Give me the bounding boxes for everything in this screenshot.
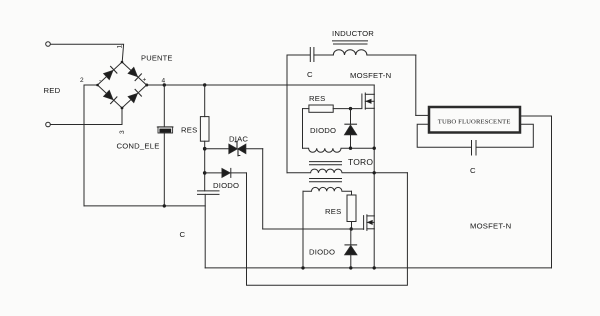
toroid core lines [310, 161, 342, 163]
diode DIODO (cell1) [350, 109, 352, 125]
toroid winding W2 (primary) [287, 169, 407, 173]
bridge diode D-topleft [104, 66, 117, 79]
wire inductor to lamp [415, 55, 417, 115]
node COND_ELE tap [163, 83, 166, 86]
node W2-midpoint [373, 171, 376, 174]
wire lamp pin bottom-left loop to cap [417, 124, 471, 147]
wire DIODO to bottom loop [247, 173, 408, 285]
bridge diode D-bottomright [128, 89, 141, 102]
wire box2 left vertical [302, 191, 304, 268]
wire gate1 rail left [303, 108, 309, 110]
mosfet U1 MOSFET-N [361, 94, 363, 108]
diode DIODO (trigger) [205, 172, 222, 174]
svg-text:COND_ELE: COND_ELE [117, 141, 160, 150]
bridge diode D-topright [128, 67, 141, 80]
svg-text:C: C [470, 166, 476, 175]
node bridge pin3 (bottom vertex) [121, 107, 124, 110]
wire resonant top rail [287, 54, 310, 56]
wire lamp pin top-left [416, 114, 429, 116]
node DIAC tap [203, 147, 207, 151]
svg-text:DIODO: DIODO [213, 181, 239, 190]
svg-text:1: 1 [117, 45, 124, 49]
wire bridge pin3 [121, 108, 123, 125]
capacitor COND_ELE [157, 127, 173, 133]
wire cap to lamp right-bottom [476, 124, 533, 147]
svg-text:-: - [99, 78, 101, 85]
capacitor C resonant [309, 48, 311, 62]
wire C to inductor [314, 54, 333, 56]
node M2source-rail [373, 266, 376, 269]
wire M1 drain [373, 85, 375, 94]
terminal bottom input [46, 122, 51, 127]
capacitor C lamp [471, 141, 473, 156]
wire box1 left vertical [302, 109, 304, 149]
diode DIODO (cell2) [345, 245, 357, 255]
wire M2 source [373, 229, 375, 268]
bridge PUENTE diamond [98, 62, 147, 108]
svg-text:DIAC: DIAC [229, 135, 248, 144]
node diode2-rail [349, 266, 352, 269]
wire DIAC to gate2 rail [262, 149, 264, 229]
inductor INDUCTOR (coil with core bars) [333, 50, 367, 55]
svg-text:+: + [143, 77, 147, 84]
wire right vertical to bottom rail [551, 116, 553, 268]
svg-text:TORO: TORO [348, 157, 373, 167]
svg-text:RES: RES [325, 207, 341, 216]
node RES1 tap [203, 83, 206, 86]
svg-text:2: 2 [80, 77, 84, 84]
node W1-diode1 [349, 147, 352, 150]
svg-text:RED: RED [44, 86, 61, 95]
node box2-rail [301, 266, 304, 269]
svg-text:4: 4 [162, 78, 166, 85]
svg-text:RES: RES [181, 126, 197, 135]
wire bridge pin2 [84, 84, 98, 86]
toroid winding W1 [303, 148, 375, 152]
svg-text:MOSFET-N: MOSFET-N [470, 222, 511, 231]
bridge diode D-bottomleft [104, 90, 117, 103]
wire COND_ELE upper [163, 85, 165, 127]
mosfet U2 MOSFET-N [363, 216, 365, 230]
toroid winding W3 [303, 187, 352, 191]
node bridge pin1 (top vertex) [121, 61, 124, 64]
svg-text:C: C [180, 230, 186, 239]
node W1-midpoint [373, 147, 376, 150]
wire bottom-left rail [84, 205, 205, 207]
svg-text:RES: RES [309, 94, 325, 103]
diac DIAC [205, 148, 229, 150]
node diode2 tap [350, 227, 353, 230]
node diode1 tap [349, 107, 352, 110]
resistor RES1 startup [204, 85, 206, 117]
resistor RES (gate1) [309, 105, 333, 112]
wire vertical A (tank return) [286, 55, 288, 173]
resistor RES (gate2) [351, 191, 353, 195]
node COND_ELE bottom junction [163, 204, 166, 207]
node bridge pin2 (left vertex) [96, 84, 99, 87]
svg-text:MOSFET-N: MOSFET-N [350, 71, 391, 80]
svg-text:C: C [307, 70, 313, 79]
wire midpoint vertical (M1 source to M2 drain) [373, 108, 375, 216]
svg-text:INDUCTOR: INDUCTOR [332, 29, 374, 38]
wire COND_ELE lower [163, 133, 165, 206]
wire +DC rail [147, 84, 375, 86]
wire left vertical to bottom rail [83, 85, 85, 206]
node DIODO tap [203, 171, 207, 175]
svg-text:DIODO: DIODO [310, 126, 336, 135]
wire bottom input [51, 124, 123, 126]
wire lamp pin top-right [520, 115, 552, 117]
node pin4 junction [145, 84, 148, 87]
wire C bottom to lower rail [204, 194, 206, 268]
svg-text:3: 3 [119, 130, 126, 134]
svg-text:PUENTE: PUENTE [141, 54, 173, 63]
wire bottom rail [205, 267, 551, 269]
capacitor C timing [198, 190, 220, 192]
svg-text:TUBO FLUORESCENTE: TUBO FLUORESCENTE [438, 118, 511, 125]
svg-text:DIODO: DIODO [309, 248, 335, 257]
wire gate2 rail [263, 228, 364, 230]
lamp TUBO FLUORESCENTE box [429, 107, 520, 133]
wire top input [51, 44, 124, 62]
wire inductor to lamp corner [367, 54, 416, 56]
terminal top input [46, 42, 51, 47]
